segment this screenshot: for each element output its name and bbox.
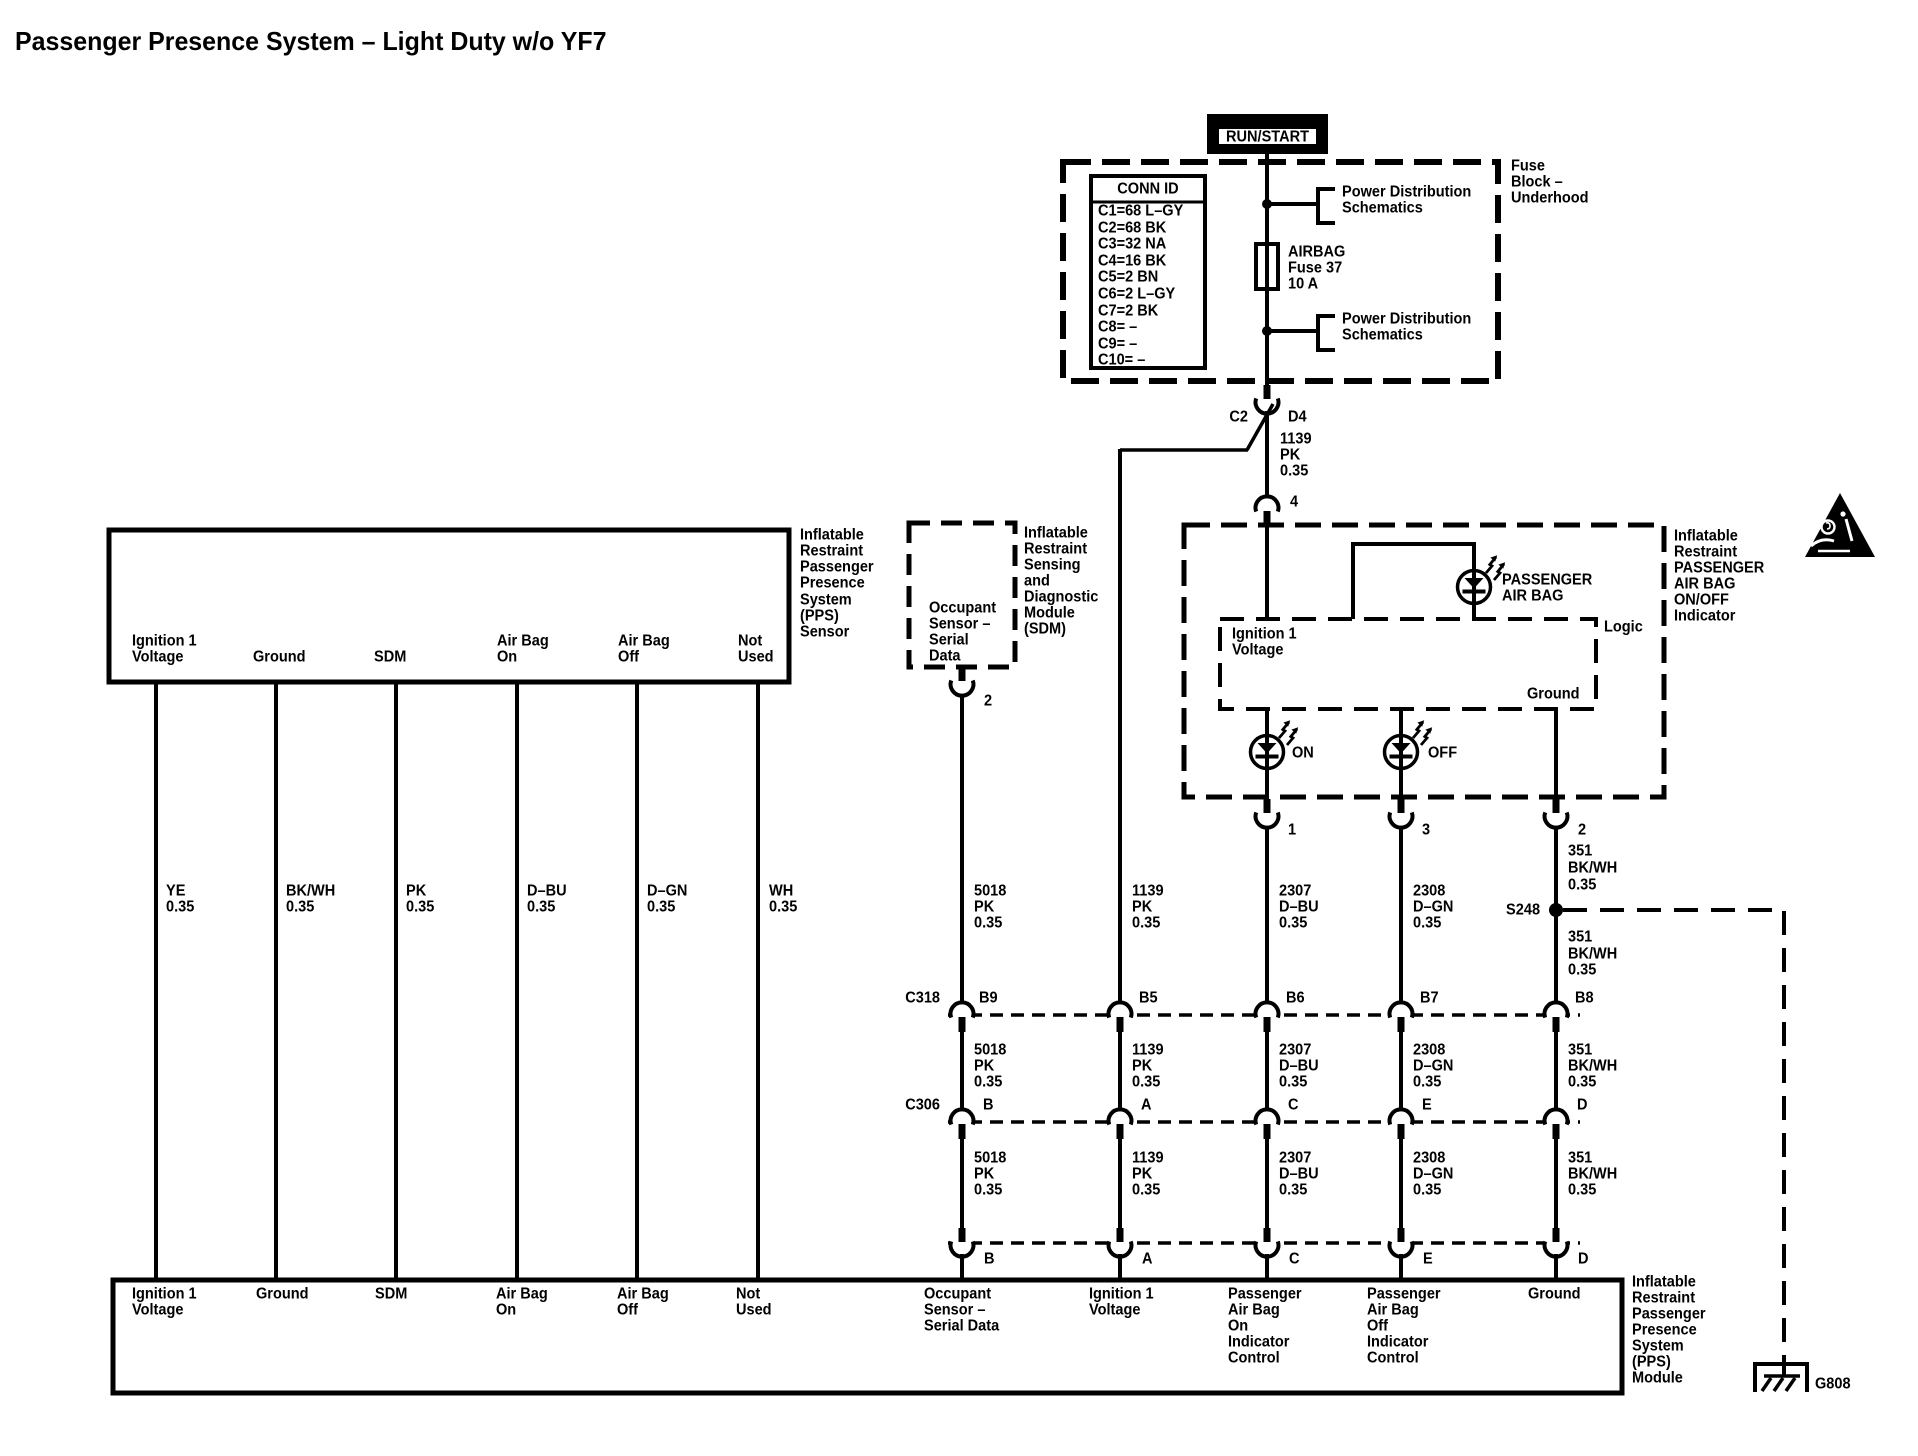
svg-text:Data: Data: [929, 647, 961, 665]
svg-text:Used: Used: [736, 1301, 772, 1319]
svg-text:Control: Control: [1367, 1349, 1419, 1367]
svg-text:C318: C318: [905, 989, 940, 1007]
svg-text:4: 4: [1290, 493, 1299, 511]
dashed wire S248 to G808: [1563, 910, 1784, 1362]
LED OFF: [1385, 736, 1418, 769]
svg-text:CONN ID: CONN ID: [1117, 180, 1178, 198]
svg-text:Ground: Ground: [253, 648, 306, 666]
wire D-GN sensor to module: [635, 682, 639, 1279]
wire logic to ON LED: [1265, 709, 1269, 797]
C318 pin B6: [1254, 1002, 1280, 1032]
svg-text:AIR BAG: AIR BAG: [1502, 587, 1563, 605]
passenger air bag LED branch wire: [1353, 544, 1474, 619]
wire 2308 C318 to C306: [1399, 1029, 1403, 1110]
svg-text:1: 1: [1288, 821, 1297, 839]
svg-text:0.35: 0.35: [1132, 1073, 1161, 1091]
connector pin 1: [1256, 799, 1279, 828]
PPS module label: [1632, 1273, 1706, 1387]
svg-text:C8= –: C8= –: [1098, 318, 1138, 336]
C318 pin B7: [1388, 1002, 1414, 1032]
svg-text:0.35: 0.35: [1279, 914, 1308, 932]
svg-text:On: On: [497, 648, 517, 666]
svg-text:0.35: 0.35: [974, 1181, 1003, 1199]
ground G808: [1755, 1362, 1851, 1393]
svg-text:0.35: 0.35: [1568, 961, 1597, 979]
svg-text:B8: B8: [1575, 989, 1594, 1007]
C306 pin E: [1388, 1109, 1414, 1139]
wire 1139 C318 to C306: [1118, 1029, 1122, 1110]
off-page connector lower: [1318, 316, 1335, 350]
svg-text:C: C: [1289, 1250, 1300, 1268]
wire 2307 C306 to module: [1265, 1136, 1269, 1228]
svg-text:Presence: Presence: [800, 574, 865, 592]
off-page connector upper: [1318, 189, 1335, 223]
svg-text:Ground: Ground: [1528, 1285, 1581, 1303]
svg-text:Schematics: Schematics: [1342, 199, 1423, 217]
wire 5018 C306 to module: [960, 1136, 964, 1228]
C306 pin A: [1107, 1109, 1133, 1139]
svg-text:B9: B9: [979, 989, 998, 1007]
wire 1139 C306 to module: [1118, 1136, 1122, 1228]
wire D-BU sensor to module: [515, 682, 519, 1279]
svg-text:0.35: 0.35: [527, 898, 556, 916]
connector pin 3: [1390, 799, 1413, 828]
module pin A: [1107, 1228, 1133, 1257]
svg-text:D4: D4: [1288, 408, 1307, 426]
fuse block underhood dashed box: [1063, 162, 1498, 381]
svg-text:C1=68 L–GY: C1=68 L–GY: [1098, 202, 1183, 220]
connector pin 2 occupant sensor: [951, 667, 974, 696]
svg-text:0.35: 0.35: [974, 914, 1003, 932]
short wires into module: [960, 1254, 964, 1279]
branch wire to SDM column: [1247, 404, 1273, 450]
indicator label: [1674, 527, 1764, 625]
connector pin 2 ground: [1545, 799, 1568, 828]
svg-text:C10= –: C10= –: [1098, 351, 1146, 369]
svg-text:0.35: 0.35: [1279, 1073, 1308, 1091]
svg-text:E: E: [1422, 1096, 1432, 1114]
svg-text:0.35: 0.35: [1280, 462, 1309, 480]
svg-text:SDM: SDM: [375, 1285, 407, 1303]
wire YE sensor to module: [154, 682, 158, 1279]
C306 pin B: [949, 1109, 975, 1139]
svg-text:2: 2: [984, 692, 992, 710]
svg-text:Sensor: Sensor: [800, 623, 849, 641]
svg-text:Logic: Logic: [1604, 618, 1643, 636]
logic box: [1220, 619, 1596, 709]
svg-text:0.35: 0.35: [1132, 914, 1161, 932]
svg-text:Voltage: Voltage: [1089, 1301, 1140, 1319]
wire into indicator: [1265, 525, 1269, 619]
svg-text:Underhood: Underhood: [1511, 189, 1589, 207]
SDM label: [1024, 524, 1099, 638]
svg-text:0.35: 0.35: [406, 898, 435, 916]
svg-text:B7: B7: [1420, 989, 1439, 1007]
connector C2/D4: [1256, 385, 1279, 414]
warning triangle icon: [1805, 493, 1875, 557]
LED ON: [1251, 736, 1284, 769]
fuse block label: [1511, 157, 1589, 207]
svg-text:Serial Data: Serial Data: [924, 1317, 1000, 1335]
svg-text:A: A: [1141, 1096, 1152, 1114]
wire to power distribution lower: [1267, 329, 1318, 333]
C318 pin B8: [1543, 1002, 1569, 1032]
svg-text:351: 351: [1568, 928, 1593, 946]
svg-text:2: 2: [1578, 821, 1586, 839]
module pin B: [949, 1228, 975, 1257]
svg-text:0.35: 0.35: [974, 1073, 1003, 1091]
svg-text:B: B: [984, 1250, 995, 1268]
svg-text:0.35: 0.35: [1568, 1181, 1597, 1199]
module pin C: [1254, 1228, 1280, 1257]
svg-text:Indicator: Indicator: [1674, 607, 1735, 625]
LED passenger air bag: [1458, 571, 1491, 604]
wire BK/WH sensor to module: [274, 682, 278, 1279]
svg-text:D: D: [1577, 1096, 1588, 1114]
wire to power distribution upper: [1267, 202, 1318, 206]
wire 2308 C306 to module: [1399, 1136, 1403, 1228]
splice S248: [1549, 903, 1563, 917]
svg-text:0.35: 0.35: [1413, 1181, 1442, 1199]
svg-text:Schematics: Schematics: [1342, 326, 1423, 344]
wire WH sensor to module: [756, 682, 760, 1279]
connector pin 4: [1256, 496, 1279, 526]
wire 351 C306 to module: [1554, 1136, 1558, 1228]
svg-text:Voltage: Voltage: [132, 648, 183, 666]
svg-text:0.35: 0.35: [647, 898, 676, 916]
wire 2307 C318 to C306: [1265, 1029, 1269, 1110]
wire 1139 PK from C2/D4 down: [1265, 411, 1269, 497]
svg-text:Module: Module: [1632, 1369, 1683, 1387]
wire 2308 pin3 to C318: [1399, 826, 1403, 1003]
svg-text:Voltage: Voltage: [1232, 641, 1283, 659]
C318 pin B5: [1107, 1002, 1133, 1032]
svg-text:Voltage: Voltage: [132, 1301, 183, 1319]
svg-text:C6=2 L–GY: C6=2 L–GY: [1098, 285, 1175, 303]
svg-text:ON: ON: [1292, 744, 1314, 762]
svg-text:G808: G808: [1815, 1375, 1851, 1393]
svg-text:0.35: 0.35: [1568, 1073, 1597, 1091]
svg-text:RUN/START: RUN/START: [1226, 128, 1310, 146]
svg-text:B5: B5: [1139, 989, 1158, 1007]
svg-text:C306: C306: [905, 1096, 940, 1114]
svg-text:OFF: OFF: [1428, 744, 1457, 762]
svg-text:0.35: 0.35: [1413, 1073, 1442, 1091]
svg-text:Off: Off: [617, 1301, 639, 1319]
svg-text:0.35: 0.35: [286, 898, 315, 916]
wire 351 pin2 to S248: [1554, 826, 1558, 1003]
svg-text:S248: S248: [1506, 901, 1540, 919]
wire RUN/START to fuse block: [1265, 154, 1269, 385]
svg-text:0.35: 0.35: [1413, 914, 1442, 932]
module connector row dashed line: [948, 1241, 1580, 1245]
svg-text:BK/WH: BK/WH: [1568, 859, 1617, 877]
svg-text:E: E: [1423, 1250, 1433, 1268]
svg-text:0.35: 0.35: [166, 898, 195, 916]
PPS sensor box: [109, 530, 789, 682]
svg-text:(SDM): (SDM): [1024, 620, 1066, 638]
RUN/START box: [1207, 114, 1328, 154]
svg-text:A: A: [1142, 1250, 1153, 1268]
C318 pin B9: [949, 1002, 975, 1032]
wire 2307 pin1 to C318: [1265, 826, 1269, 1003]
svg-text:C5=2 BN: C5=2 BN: [1098, 268, 1158, 286]
C306 pin C: [1254, 1109, 1280, 1139]
PPS sensor label: [800, 526, 874, 641]
connector row C306 dashed line: [948, 1120, 1580, 1124]
svg-text:C: C: [1288, 1096, 1299, 1114]
wire 351 C318 to C306: [1554, 1029, 1558, 1110]
junction node lower: [1262, 326, 1272, 336]
svg-text:SDM: SDM: [374, 648, 406, 666]
svg-text:10 A: 10 A: [1288, 275, 1318, 293]
C306 pin D: [1543, 1109, 1569, 1139]
svg-text:C3=32 NA: C3=32 NA: [1098, 235, 1166, 253]
PPS module box: [113, 1280, 1622, 1393]
connector row C318 dashed line: [948, 1013, 1580, 1017]
svg-text:Ground: Ground: [256, 1285, 309, 1303]
CONN ID table: [1091, 176, 1205, 369]
svg-text:On: On: [496, 1301, 516, 1319]
svg-text:B6: B6: [1286, 989, 1305, 1007]
wire 5018 occupant sensor to C318: [960, 694, 964, 1003]
wire 1139 branch down to C318: [1118, 449, 1122, 1003]
indicator dashed box: [1184, 525, 1664, 797]
svg-text:0.35: 0.35: [1279, 1181, 1308, 1199]
svg-text:351: 351: [1568, 842, 1593, 860]
svg-text:D: D: [1578, 1250, 1589, 1268]
svg-text:C2: C2: [1229, 408, 1248, 426]
svg-text:0.35: 0.35: [1568, 876, 1597, 894]
wire logic to OFF LED: [1399, 709, 1403, 797]
svg-text:3: 3: [1422, 821, 1430, 839]
occupant sensor dashed box (SDM): [909, 523, 1015, 667]
svg-text:0.35: 0.35: [1132, 1181, 1161, 1199]
module pin D: [1543, 1228, 1569, 1257]
svg-text:B: B: [983, 1096, 994, 1114]
svg-text:Control: Control: [1228, 1349, 1280, 1367]
fuse F37 AIRBAG: [1256, 244, 1278, 289]
wire 5018 C318 to C306: [960, 1029, 964, 1110]
svg-text:0.35: 0.35: [769, 898, 798, 916]
svg-text:Passenger Presence System – Li: Passenger Presence System – Light Duty w…: [15, 28, 606, 57]
svg-text:Off: Off: [618, 648, 640, 666]
wire PK sensor to module: [394, 682, 398, 1279]
svg-text:Used: Used: [738, 648, 774, 666]
wire logic ground down: [1554, 709, 1558, 797]
svg-text:Ground: Ground: [1527, 685, 1580, 703]
junction node upper: [1262, 199, 1272, 209]
module pin E: [1388, 1228, 1414, 1257]
